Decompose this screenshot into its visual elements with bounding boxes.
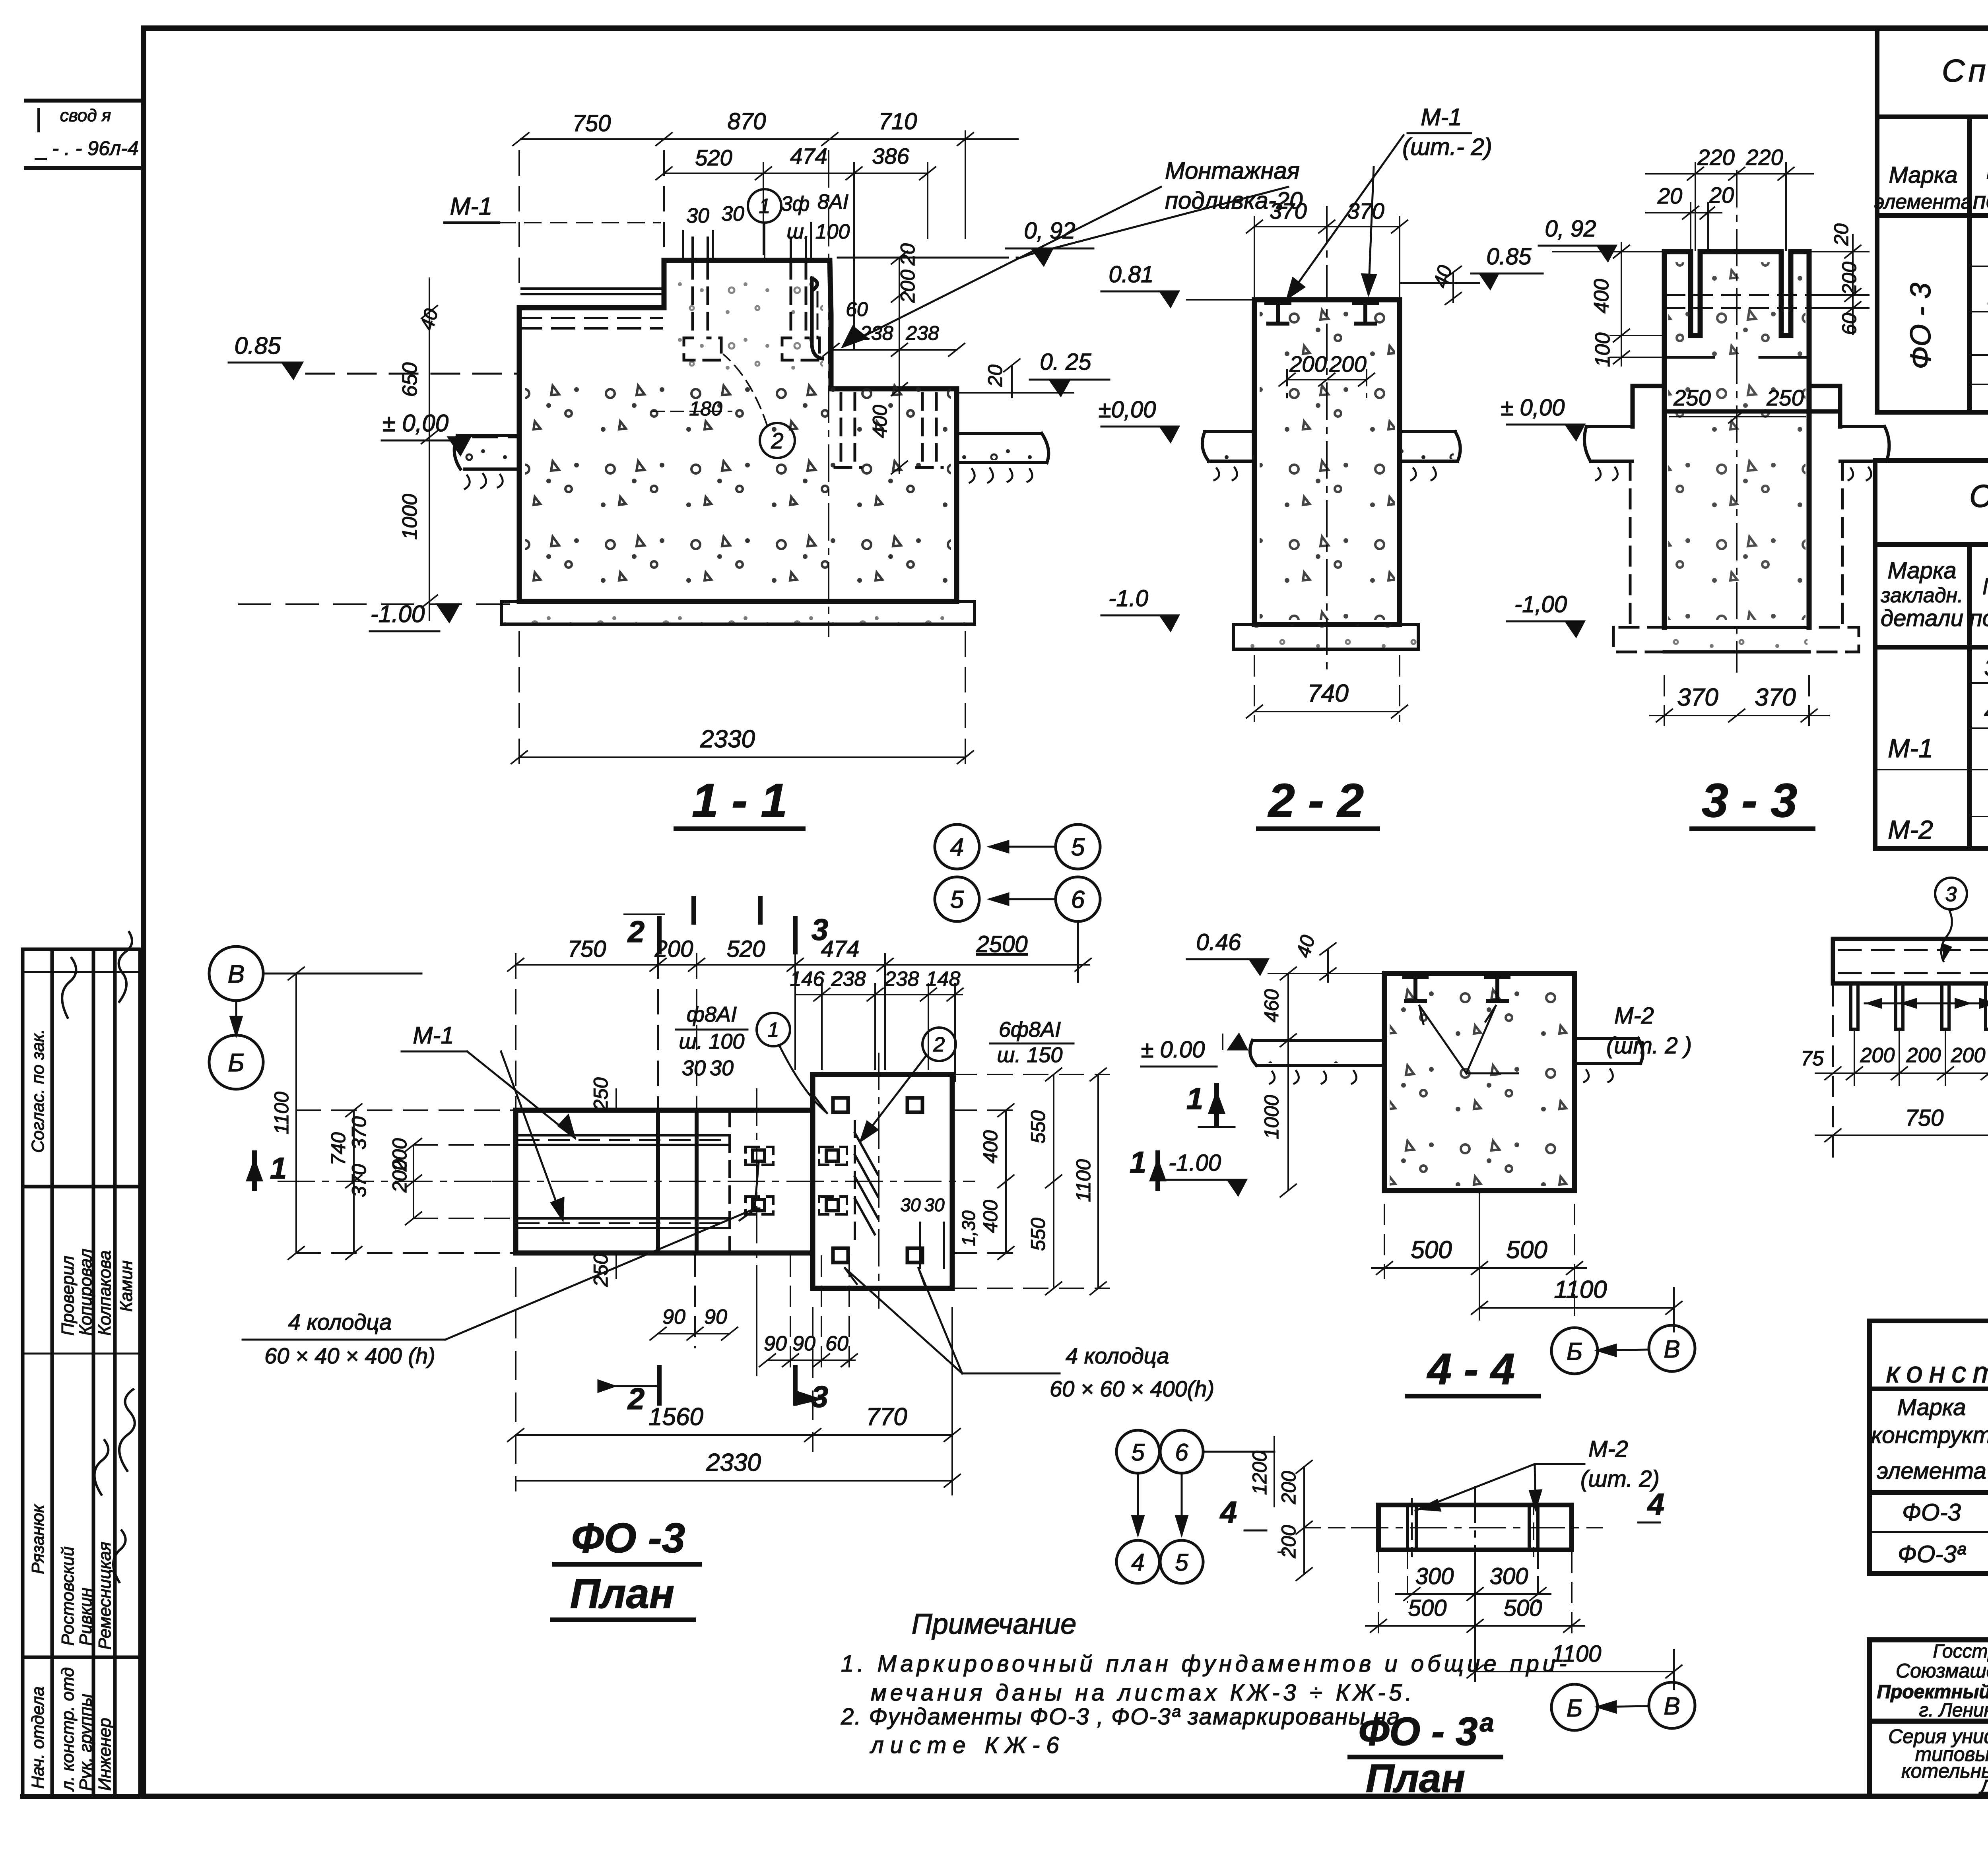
svg-text:0, 92: 0, 92 (1545, 216, 1596, 242)
svg-text:Рук. группы: Рук. группы (76, 1694, 95, 1791)
svg-text:В: В (1664, 1336, 1680, 1363)
svg-text:3 - 3: 3 - 3 (1702, 774, 1797, 827)
svg-text:1,30: 1,30 (958, 1210, 979, 1246)
svg-text:0.46: 0.46 (1196, 929, 1242, 955)
svg-text:90: 90 (662, 1305, 685, 1328)
svg-text:1. Маркировочный план фундам: 1. Маркировочный план фундаментов и общи… (841, 1651, 1570, 1677)
section 3-3 bottom dim 370/370 (1650, 676, 1829, 727)
svg-text:1: 1 (1130, 1146, 1146, 1179)
section 2-2 centerline (1326, 207, 1328, 676)
svg-text:Проверил: Проверил (58, 1256, 78, 1336)
svg-text:400: 400 (869, 405, 891, 438)
section 1-1 pos circle 2 with leader (760, 423, 795, 458)
svg-text:370: 370 (348, 1116, 370, 1150)
small reference box top-left margin (26, 101, 144, 168)
plan ФО-3 label 4 колодца 60×60×400(h) right (1050, 1343, 1214, 1401)
svg-text:750: 750 (568, 936, 606, 962)
svg-text:1100: 1100 (1072, 1159, 1095, 1202)
svg-text:500: 500 (1411, 1236, 1452, 1264)
svg-text:30: 30 (924, 1195, 945, 1215)
svg-text:770: 770 (866, 1403, 907, 1431)
svg-text:Марка: Марка (1889, 162, 1957, 188)
svg-text:4 колодца: 4 колодца (288, 1309, 392, 1334)
section 1-1 bottom dim 2330 (511, 632, 973, 771)
svg-text:М-1: М-1 (1421, 104, 1462, 130)
svg-text:ш. 150: ш. 150 (997, 1043, 1063, 1067)
svg-text:-1,00: -1,00 (1514, 591, 1567, 617)
svg-text:180: 180 (689, 398, 722, 420)
section 1-1 left elevations 0.85, ±0.00, -1.00 and dims 650/1000 (235, 306, 449, 627)
section 1-1 concrete body outline (519, 260, 957, 601)
section 4-4 block (1384, 974, 1574, 1191)
svg-text:0.85: 0.85 (235, 332, 281, 359)
plan ФО-3 section marks 2,3 top and bottom (659, 898, 795, 952)
section 3-3 collar at ground (1633, 386, 1840, 427)
svg-text:90: 90 (764, 1332, 787, 1355)
svg-text:Б: Б (1567, 1338, 1582, 1365)
svg-text:свод я: свод я (60, 106, 111, 125)
section 1-1 М-1 label top left (450, 193, 493, 220)
section 3-3 right dims 20/200/60 (1811, 235, 1869, 334)
svg-text:конструктивный монолитный: конструктивный монолитный элемент. (1886, 1356, 1988, 1389)
svg-text:200: 200 (1329, 351, 1366, 376)
svg-text:30: 30 (721, 202, 744, 225)
table: Спецификация стали (right middle) (1875, 460, 1988, 849)
plan ФО-3 right dim chains 400/550/1100 (900, 1110, 1095, 1251)
svg-text:370: 370 (1270, 198, 1307, 223)
section 2-2 title (1268, 774, 1364, 827)
svg-text:4 колодца: 4 колодца (1066, 1343, 1169, 1368)
svg-text:75: 75 (1801, 1047, 1824, 1070)
svg-text:30: 30 (682, 1056, 706, 1080)
section 3-3 dashed footing below ground (1613, 461, 1859, 652)
svg-text:Инженер: Инженер (95, 1718, 115, 1791)
svg-text:4 - 4: 4 - 4 (1427, 1345, 1515, 1394)
section 1-1 top dimension chain row1 750/870/710 (513, 131, 1018, 292)
plan ФО-3 dims top row 750/200/520/474/2500 (508, 954, 1091, 1109)
plan ФО-3 titles (570, 1515, 685, 1617)
svg-text:400: 400 (979, 1130, 1002, 1164)
section 3-3 embed dashes (1664, 295, 1840, 411)
svg-text:5: 5 (950, 886, 964, 913)
М-1 detail anchor arrows + leader to channel hook (1865, 976, 1988, 1009)
svg-text:650: 650 (398, 363, 421, 397)
svg-text:4: 4 (950, 834, 964, 861)
plan ФО-3а bar (1378, 1505, 1572, 1550)
section 4-4 title (1427, 1345, 1515, 1394)
svg-text:План: План (1366, 1756, 1465, 1801)
plan ФО-3 dims row2 146/238/238/148 (795, 984, 963, 1081)
svg-text:М-1: М-1 (1888, 733, 1933, 763)
svg-text:- . - 96л-4: - . - 96л-4 (52, 137, 138, 159)
svg-text:1560: 1560 (648, 1403, 703, 1431)
section 2-2 elevations (1099, 244, 1532, 611)
svg-text:Госстрой СССР: Госстрой СССР (1933, 1641, 1988, 1662)
svg-text:146: 146 (790, 968, 825, 991)
svg-text:В: В (228, 960, 245, 988)
plan ФО-3а Б/В circles (1551, 1684, 1598, 1730)
section 2-2 М-1 embeds at top (1266, 303, 1377, 324)
section 1-1 speckled fill (525, 382, 951, 596)
svg-text:460: 460 (1260, 989, 1283, 1022)
svg-text:200: 200 (1277, 1525, 1300, 1559)
signature block (rotated, left margin) (23, 949, 140, 1796)
svg-text:Спецификация стали на одну: Спецификация стали на одну (1969, 478, 1988, 514)
svg-text:В: В (1664, 1693, 1680, 1720)
section 3-3 title (1702, 774, 1797, 827)
plan ФО-3 bottom dims 1560/770/2330 (508, 1268, 960, 1495)
svg-text:238: 238 (884, 968, 919, 991)
М-1 detail anchor legs (1851, 983, 1988, 1029)
svg-text:550: 550 (1027, 1110, 1049, 1144)
svg-text:М-1: М-1 (450, 193, 493, 220)
svg-text:740: 740 (327, 1132, 349, 1166)
svg-text:Нач. отдела: Нач. отдела (28, 1686, 48, 1789)
svg-text:поз.: поз. (1970, 605, 1988, 631)
plan ФО-3 В/Б circles left (209, 946, 263, 1001)
svg-text:Б: Б (228, 1048, 245, 1077)
svg-text:листе КЖ-6: листе КЖ-6 (870, 1732, 1066, 1758)
section 2-2 dim 370/370 (1246, 217, 1408, 297)
svg-text:ФО-3ª: ФО-3ª (1898, 1541, 1966, 1567)
svg-text:100: 100 (1591, 333, 1614, 367)
plan ФО-3а bottom dims 300/300, 500/500, 1100 (1366, 1552, 1682, 1689)
svg-text:М-1: М-1 (413, 1022, 454, 1049)
svg-text:30: 30 (710, 1056, 734, 1080)
svg-text:1000: 1000 (398, 494, 421, 540)
svg-text:± 0.00: ± 0.00 (1141, 1037, 1205, 1063)
svg-text:90: 90 (704, 1305, 727, 1328)
svg-text:60 × 40 × 400 (h): 60 × 40 × 400 (h) (264, 1343, 435, 1368)
svg-text:(шт. 2 ): (шт. 2 ) (1606, 1033, 1692, 1059)
svg-text:400: 400 (1590, 279, 1613, 314)
svg-text:238: 238 (831, 968, 866, 991)
svg-text:474: 474 (790, 144, 827, 169)
svg-text:250: 250 (590, 1077, 612, 1111)
svg-text:Ривкин: Ривкин (76, 1588, 95, 1646)
section 3-3 elevations (1501, 216, 1596, 617)
svg-text:Б: Б (1567, 1695, 1582, 1722)
svg-text:План: План (570, 1571, 675, 1617)
section 2-2 column body (1254, 300, 1400, 624)
plan ФО-3 left bar outline (516, 1074, 952, 1288)
title row 2 of raskhod table (1886, 1356, 1988, 1389)
title block (штамп) (1870, 1640, 1988, 1796)
svg-text:2. Фундаменты ФО-3 , ФО-3ª: 2. Фундаменты ФО-3 , ФО-3ª замаркированы… (841, 1704, 1401, 1730)
plan ФО-3 labels ф8АI ш.100, 30/30, pos circles 1,2, 6ф8АI ш.150 (679, 1003, 1063, 1080)
plan ФО-3а "4" section marks (1219, 1487, 1664, 1529)
section 1-1 formwork strip top-left (подливка) (519, 289, 664, 328)
svg-text:1200: 1200 (1248, 1451, 1271, 1495)
svg-text:6: 6 (1071, 886, 1085, 913)
plan ФО-3 bottom small dims 90/90, 90/90/60 (662, 1305, 848, 1355)
svg-text:1100: 1100 (1554, 1276, 1607, 1303)
svg-text:6ф8АI: 6ф8АI (999, 1018, 1061, 1041)
plan ФО-3а left dims 1200/200/200 (1248, 1451, 1300, 1559)
svg-text:детали: детали (1881, 605, 1963, 631)
svg-text:870: 870 (728, 109, 766, 134)
section 4-4 bottom dims 500/500, 1100 (1372, 1193, 1682, 1332)
svg-text:котельных с котлами: котельных с котлами (1901, 1760, 1988, 1782)
section 3-3 column outline with top slots (1664, 252, 1809, 627)
Примечание notes (841, 1608, 1570, 1758)
svg-text:М-2: М-2 (1888, 815, 1933, 844)
svg-text:Спецификация арматуры на од: Спецификация арматуры на один (1942, 53, 1988, 88)
svg-text:550: 550 (1027, 1218, 1049, 1251)
svg-text:1: 1 (270, 1152, 287, 1185)
svg-text:2500: 2500 (976, 931, 1027, 957)
svg-text:710: 710 (879, 109, 917, 134)
svg-text:200: 200 (1277, 1471, 1300, 1505)
plan ФО-3 section marks 1 left/right (270, 1146, 1146, 1185)
svg-text:0, 92: 0, 92 (1024, 218, 1076, 244)
svg-text:Монтажная: Монтажная (1165, 157, 1300, 184)
section 1-1 title (692, 774, 787, 827)
table: Спецификация арматуры (top right) (1877, 28, 1988, 412)
svg-text:20: 20 (1709, 182, 1734, 208)
plan ФО-3 left dim chains 1100/740/370/370/200/200/250/250 (270, 1077, 612, 1287)
svg-text:400: 400 (979, 1200, 1002, 1233)
svg-text:370: 370 (1755, 684, 1796, 711)
section 1-1 elevation 0.92 right (1024, 218, 1076, 244)
section 1-1 right small dims 200/20, 60, 238/238, 20, 400 (689, 243, 1006, 438)
svg-text:386: 386 (872, 144, 909, 169)
svg-text:N: N (1982, 574, 1988, 599)
svg-text:8АI: 8АI (817, 190, 848, 213)
svg-text:300: 300 (1415, 1563, 1454, 1589)
section 1-1 Монтажная подливка label + leaders (1165, 157, 1303, 214)
section 3-3 top dims 220/220 and 20/20 (1646, 163, 1813, 250)
svg-text:±0,00: ±0,00 (1099, 397, 1156, 423)
svg-text:Марка: Марка (1887, 558, 1956, 584)
svg-text:500: 500 (1408, 1595, 1447, 1621)
plan ФО-3 middle pedestal dashed wells (745, 1147, 847, 1214)
svg-text:200: 200 (1838, 262, 1860, 295)
section 3-3 centerline (1736, 171, 1738, 672)
svg-text:238: 238 (905, 322, 939, 344)
signature squiggles (62, 932, 135, 1582)
svg-text:370: 370 (1347, 198, 1384, 223)
svg-text:3ф: 3ф (781, 192, 810, 215)
svg-text:4: 4 (1984, 698, 1988, 725)
section 4-4 elevations 0.46, ±0.00, -1.00 and dims (1141, 929, 1319, 1176)
svg-text:2 - 2: 2 - 2 (1268, 774, 1364, 827)
svg-text:1000: 1000 (1260, 1095, 1283, 1139)
М-1 detail plate (1833, 939, 1988, 983)
svg-text:ш. 100: ш. 100 (787, 220, 850, 243)
svg-text:3: 3 (1984, 654, 1988, 681)
circles 4-5 / 5-6 pairs above plan (935, 824, 979, 869)
svg-text:1100: 1100 (270, 1092, 293, 1135)
svg-text:250: 250 (1673, 385, 1710, 410)
svg-text:0.85: 0.85 (1487, 244, 1532, 270)
plan ФО-3 internal verticals of left bar (658, 1110, 697, 1253)
svg-text:2330: 2330 (706, 1449, 761, 1476)
svg-text:М-2: М-2 (1614, 1003, 1654, 1029)
svg-text:750: 750 (1905, 1105, 1944, 1131)
svg-text:200: 200 (1289, 351, 1326, 376)
svg-text:мечания даны на листах КЖ: мечания даны на листах КЖ-3 ÷ КЖ-5. (871, 1680, 1415, 1706)
table: Расход бетона и стали (bottom right) (1870, 1321, 1988, 1573)
section 3-3 left dims 400/100 (1610, 242, 1662, 366)
svg-text:60 × 60 × 400(h): 60 × 60 × 400(h) (1050, 1376, 1214, 1401)
svg-text:20: 20 (984, 365, 1006, 387)
svg-text:Рязанюк: Рязанюк (28, 1504, 48, 1574)
section 1-1 footing slab (501, 601, 975, 624)
section 2-2 dim 200/200 middle (1279, 370, 1375, 398)
svg-text:5: 5 (1175, 1549, 1188, 1576)
section 3-3 dim 250/250 (1673, 385, 1804, 410)
svg-text:Марка: Марка (1897, 1394, 1966, 1420)
section 1-1 labels 30 30, pos circle 1, 3ф8АI ш.100 (686, 190, 850, 243)
svg-text:1 - 1: 1 - 1 (692, 774, 787, 827)
section 4-4 ground strips (1250, 1038, 1643, 1084)
section 1-1 dim row2 520/474/386 (656, 163, 936, 350)
svg-text:30: 30 (900, 1195, 921, 1215)
svg-text:Соглас. по зак.: Соглас. по зак. (28, 1029, 48, 1153)
table1 text (1874, 45, 1988, 369)
svg-text:200: 200 (1860, 1044, 1895, 1067)
svg-text:4: 4 (1219, 1495, 1237, 1529)
section 1-1 anchor wells in pedestal (dashed) (684, 262, 819, 360)
section 1-1 ground strip left (454, 436, 519, 489)
svg-text:закладн.: закладн. (1880, 584, 1963, 607)
svg-text:ф8АI: ф8АI (687, 1003, 737, 1026)
section 2-2 bottom dim 740 (1246, 656, 1408, 721)
svg-text:ФО - 3: ФО - 3 (1905, 283, 1937, 369)
svg-text:300: 300 (1490, 1563, 1528, 1589)
svg-text:Ростовский: Ростовский (58, 1546, 78, 1646)
svg-text:конструкт: конструкт (1871, 1422, 1988, 1448)
svg-text:0.81: 0.81 (1109, 262, 1154, 287)
svg-text:± 0,00: ± 0,00 (1501, 395, 1565, 421)
svg-text:1: 1 (1186, 1082, 1203, 1116)
section 2-2 footing slab (1233, 624, 1418, 649)
svg-text:500: 500 (1506, 1236, 1547, 1264)
svg-text:Союзмашстройпроект: Союзмашстройпроект (1896, 1660, 1988, 1682)
svg-text:148: 148 (926, 968, 961, 991)
svg-text:2: 2 (771, 428, 783, 453)
plan ФО-3 pedestal dashed outline in middle (730, 1110, 855, 1253)
svg-text:30: 30 (686, 204, 709, 227)
svg-text:5: 5 (1071, 834, 1085, 861)
svg-text:520: 520 (727, 936, 765, 962)
svg-text:250: 250 (1766, 385, 1804, 410)
plan ФО-3а М-2 label + leaders (1580, 1436, 1660, 1492)
svg-text:ФО-3: ФО-3 (1902, 1499, 1961, 1526)
svg-text:2: 2 (933, 1033, 945, 1056)
svg-text:2: 2 (627, 915, 645, 949)
plan ФО-3а circle stacks 5/6 over 4/5 (1116, 1430, 1159, 1473)
plan ФО-3 label 4 колодца 60×40×400(h) (264, 1309, 435, 1368)
section 1-1 centerline (828, 151, 829, 636)
svg-text:поз.: поз. (1973, 187, 1988, 214)
plan ФО-3а titles (1358, 1709, 1493, 1801)
svg-text:4: 4 (1131, 1549, 1144, 1576)
plan ФО-3 right block corner wells (833, 1098, 922, 1263)
section 1-1 rebar dowels above pedestal top (693, 238, 806, 260)
svg-text:220: 220 (1697, 145, 1734, 170)
section 2-2 М-1 (шт.-2) label + leaders (1402, 104, 1492, 160)
svg-text:238: 238 (860, 322, 893, 344)
svg-text:60: 60 (1838, 313, 1860, 335)
section 3-3 ground strips (1584, 427, 1889, 480)
svg-text:Копировал: Копировал (76, 1249, 95, 1336)
svg-text:220: 220 (1745, 145, 1783, 170)
svg-text:370: 370 (1677, 684, 1718, 711)
section 4-4 Б/В circles (1551, 1328, 1598, 1374)
svg-text:Колпакова: Колпакова (95, 1250, 115, 1336)
svg-text:элемента: элемента (1877, 1458, 1986, 1484)
svg-text:1: 1 (768, 1018, 779, 1041)
bottom frame extension to left (23, 1794, 144, 1799)
svg-text:2: 2 (627, 1382, 645, 1416)
section 2-2 ground strips (1202, 432, 1460, 480)
svg-text:3: 3 (1945, 883, 1957, 906)
svg-text:-1.0: -1.0 (1109, 586, 1148, 611)
svg-text:± 0,00: ± 0,00 (382, 410, 448, 436)
svg-text:520: 520 (695, 145, 732, 170)
section 4-4 М-2 embeds at top (1404, 977, 1508, 1001)
section 1-1 ground strip right (957, 433, 1048, 483)
svg-text:М-2: М-2 (1588, 1436, 1628, 1462)
svg-text:750: 750 (573, 111, 611, 136)
svg-text:740: 740 (1307, 680, 1348, 707)
svg-text:-1.00: -1.00 (1169, 1150, 1221, 1176)
svg-text:60: 60 (825, 1332, 848, 1355)
svg-text:500: 500 (1504, 1595, 1542, 1621)
svg-text:20: 20 (1657, 183, 1682, 208)
svg-text:200: 200 (1906, 1044, 1941, 1067)
plan ФО-3 junction hatch (855, 1133, 878, 1234)
plan ФО-3 rail strips (М-1) in left bar (516, 1135, 730, 1228)
svg-text:370: 370 (348, 1164, 370, 1197)
svg-text:N: N (1986, 157, 1988, 184)
svg-text:элемента: элемента (1874, 190, 1972, 213)
plan ФО-3 М-1 label + leaders (413, 1022, 454, 1049)
svg-text:20: 20 (1830, 223, 1852, 246)
М-1 detail pos circle 3 above plate (1935, 878, 1967, 910)
plan ФО-3а М-2 embeds (vertical pairs) (1408, 1505, 1538, 1550)
svg-text:4: 4 (1647, 1487, 1664, 1521)
svg-text:Ремесницкая: Ремесницкая (95, 1542, 115, 1650)
section 4-4 "1" section mark left (1186, 1082, 1203, 1116)
svg-text:ФО -3: ФО -3 (571, 1515, 685, 1561)
svg-text:Камин: Камин (116, 1261, 136, 1312)
svg-text:ш. 100: ш. 100 (679, 1030, 745, 1053)
svg-text:(шт.- 2): (шт.- 2) (1402, 134, 1492, 160)
svg-text:0. 25: 0. 25 (1040, 349, 1092, 375)
svg-text:2330: 2330 (700, 725, 755, 753)
svg-text:1: 1 (759, 195, 771, 218)
plan ФО-3а centerlines (1352, 1487, 1602, 1574)
svg-text:5: 5 (1131, 1439, 1145, 1466)
svg-text:200: 200 (388, 1159, 411, 1193)
plan ФО-3 centerlines (493, 1053, 974, 1308)
svg-text:6: 6 (1175, 1439, 1188, 1466)
svg-text:Примечание: Примечание (912, 1608, 1077, 1640)
section 1-1 embed channel at pedestal right (М-2 trace) (812, 278, 822, 359)
section 1-1 elevation 0.25 right (1040, 349, 1092, 375)
svg-text:г. Ленинград 1967г: г. Ленинград 1967г (1919, 1700, 1988, 1721)
М-1 detail dims 75/200/200/200/75 and 750 (1815, 986, 1988, 1157)
svg-text:л. констр. отд: л. констр. отд (58, 1667, 78, 1792)
svg-text:60: 60 (846, 298, 868, 320)
svg-text:200: 200 (1951, 1044, 1986, 1067)
section 1-1 anchor wells below step (dashed) (835, 394, 942, 467)
svg-text:3: 3 (812, 913, 828, 947)
section 4-4 М-2 (шт.2) label (1606, 1003, 1692, 1059)
